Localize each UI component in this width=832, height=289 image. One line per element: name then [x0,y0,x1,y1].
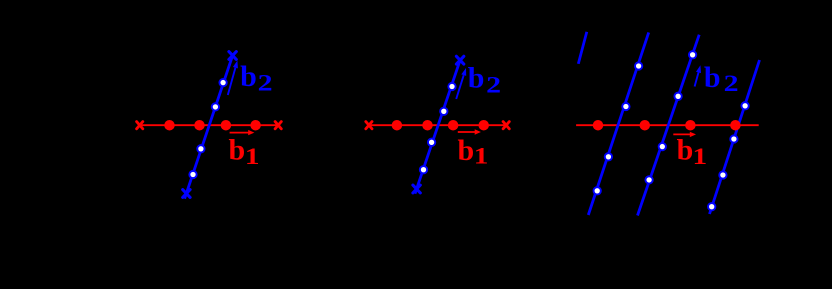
svg-text:b: b [240,60,257,93]
node: blue x-mark bottom (panel 1) [183,190,190,198]
node: white lattice dot 3 line 2 (panel 3) [605,153,612,160]
node: red lattice dot 1 (panel 2) [392,120,403,131]
node: white lattice dot 1 line 4 (panel 3) [741,102,748,109]
wire: blue lattice line (panel 1) [185,56,233,199]
node: white lattice dot 2 line 3 (panel 3) [674,93,681,100]
wire: blue lattice line 3 (panel 3) [638,35,700,216]
node: red lattice dot 3 (panel 3) [685,120,696,131]
node: white lattice dot 2 line 2 (panel 3) [622,103,629,110]
node: red x-mark left end (panel 2) [366,122,372,129]
node: white lattice dot 4 line 4 (panel 3) [708,203,715,210]
node: white lattice dot 4 line 3 (panel 3) [645,176,652,183]
svg-text:2: 2 [724,71,739,97]
node: white lattice dot 2 (panel 1) [212,103,219,110]
vector arrow b1 (panel 2) [458,129,481,134]
vector arrow b1 (panel 1) [230,130,255,135]
wire: blue lattice line 4 (panel 3) [710,60,760,214]
node: white lattice dot 3 line 3 (panel 3) [659,143,666,150]
node: white lattice dot 2 (panel 2) [440,108,447,115]
node: red lattice dot 4 (panel 2) [478,120,489,131]
label b2 subscript (panel 2) [486,72,501,98]
node: white lattice dot 1 (panel 1) [219,79,226,86]
node: red lattice dot 4 (panel 1) [250,120,261,131]
wire: blue lattice line (panel 2) [415,60,460,194]
node: white lattice dot 3 (panel 2) [428,139,435,146]
wire: blue lattice line stub (panel 3, top-left) [578,32,587,64]
node: red x-mark right end (panel 2) [503,122,509,129]
node: red lattice dot 1 (panel 3) [593,120,604,131]
label b2 subscript (panel 1) [258,70,273,96]
wire: blue lattice line 2 (panel 3) [588,32,648,215]
vector arrow b2 (panel 1) [228,61,238,96]
node: white lattice dot 4 (panel 2) [420,166,427,173]
node: blue x-mark top (panel 2) [456,56,463,64]
node: white lattice dot 4 line 2 (panel 3) [594,187,601,194]
label b1 subscript (panel 1) [245,144,260,169]
node: white lattice dot 4 (panel 1) [189,171,196,178]
label b1 subscript (panel 3) [692,144,707,169]
svg-text:b: b [229,134,246,167]
node: white lattice dot 3 (panel 1) [197,145,204,152]
svg-text:b: b [468,62,485,95]
node: blue x-mark bottom (panel 2) [413,185,420,193]
vector arrow b2 (panel 3) [695,65,701,86]
vector arrow b1 (panel 3) [673,132,696,137]
svg-text:1: 1 [692,144,707,169]
node: red lattice dot 3 (panel 1) [221,120,232,131]
label b1 subscript (panel 2) [474,143,489,168]
wire: red axis line (panel 1) [140,124,279,126]
node: white lattice dot 2 line 4 (panel 3) [730,135,737,142]
node: white lattice dot 1 line 2 (panel 3) [635,62,642,69]
label b2 subscript (panel 3) [724,71,739,97]
node: red x-mark left end (panel 1) [137,122,143,129]
node: red lattice dot 2 (panel 2) [422,120,433,131]
wire: red axis line (panel 3) [576,124,759,126]
svg-text:2: 2 [486,72,501,98]
svg-text:2: 2 [258,70,273,96]
node: white lattice dot 1 (panel 2) [448,83,455,90]
svg-text:b: b [704,61,721,94]
svg-text:1: 1 [474,143,489,168]
svg-text:b: b [458,134,475,167]
node: red lattice dot 2 (panel 3) [640,120,651,131]
node: red x-mark right end (panel 1) [275,122,281,129]
node: white lattice dot 3 line 4 (panel 3) [719,171,726,178]
node: red lattice dot 1 (panel 1) [164,120,175,131]
svg-text:1: 1 [245,144,260,169]
wire: red axis line (panel 2) [369,124,506,126]
node: red lattice dot 2 (panel 1) [194,120,205,131]
node: blue x-mark top (panel 1) [229,52,236,60]
node: white lattice dot 1 line 3 (panel 3) [689,51,696,58]
vector arrow b2 (panel 2) [456,68,466,99]
node: red lattice dot 3 (panel 2) [448,120,459,131]
node: red lattice dot 4 on blue line 4 (panel 3) [730,120,741,131]
svg-text:b: b [677,134,694,167]
